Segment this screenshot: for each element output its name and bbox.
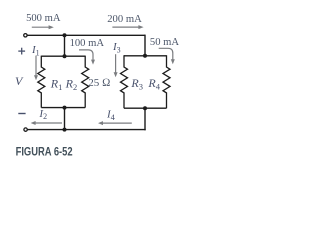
wire node C drop [64,108,66,130]
svg-text:25 Ω: 25 Ω [88,77,110,89]
wire right-block bottom rail [124,107,167,109]
wire node E drop [144,108,146,130]
terminal bottom-left [24,128,27,131]
arrow 100 mA [79,50,95,65]
wire left-block bottom rail [41,107,85,109]
node D junction dot [143,54,147,58]
arrow I1 [34,56,38,81]
wire left-block top rail [41,55,85,57]
svg-text:100 mA: 100 mA [70,38,105,49]
resistor R2 [82,56,89,108]
wire bottom [28,129,146,131]
svg-text:200 mA: 200 mA [107,14,142,25]
label minus sign [18,113,25,115]
arrow I3 [114,54,118,77]
svg-text:500 mA: 500 mA [26,13,61,24]
node F junction dot [63,128,67,132]
resistor R3 [121,55,128,108]
node C junction dot [63,106,67,110]
arrow I2 [31,121,62,125]
wire right-block top rail [124,55,167,57]
wire top [27,34,145,36]
svg-text:50 mA: 50 mA [150,37,179,48]
wire right vertical [144,35,146,56]
arrow 50 mA [159,48,175,64]
node A junction dot [63,33,67,37]
node B junction dot [63,54,67,58]
node E junction dot [143,106,147,110]
resistor R4 [163,55,170,108]
arrow 500 mA [32,25,54,29]
arrow I4 [98,121,132,125]
resistor R1 [38,56,45,108]
terminal top-left [24,34,27,37]
svg-text:FIGURA 6-52: FIGURA 6-52 [16,145,73,159]
arrow 200 mA [112,25,143,29]
label plus sign [18,48,25,55]
wire node A drop [64,35,66,56]
